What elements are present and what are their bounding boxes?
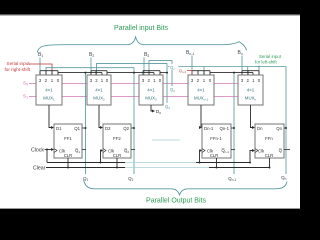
svg-text:Dn-1: Dn-1 xyxy=(204,126,214,131)
svg-text:Parallel input Bits: Parallel input Bits xyxy=(114,25,169,32)
svg-text:CLR: CLR xyxy=(210,153,219,158)
svg-text:Qn: Qn xyxy=(276,126,282,131)
svg-text:Parallel Output Bits: Parallel Output Bits xyxy=(146,198,206,205)
svg-text:4×1: 4×1 xyxy=(45,88,53,93)
svg-text:for right-shift: for right-shift xyxy=(5,67,31,72)
svg-text:for left-shift: for left-shift xyxy=(255,60,277,65)
svg-text:4×1: 4×1 xyxy=(95,88,103,93)
svg-text:FF2: FF2 xyxy=(113,136,121,141)
svg-text:CLR: CLR xyxy=(265,153,274,158)
svg-text:4×1: 4×1 xyxy=(147,88,155,93)
svg-text:D2: D2 xyxy=(105,126,111,131)
svg-text:Clear: Clear xyxy=(33,166,46,172)
svg-text:FFn-1: FFn-1 xyxy=(210,136,222,141)
svg-text:CLR: CLR xyxy=(113,153,122,158)
svg-text:CLR: CLR xyxy=(64,153,73,158)
svg-text:Dn: Dn xyxy=(257,126,263,131)
svg-text:Clock: Clock xyxy=(31,148,44,154)
svg-text:D1: D1 xyxy=(56,126,62,131)
svg-text:4×1: 4×1 xyxy=(197,88,205,93)
svg-text:Serial input: Serial input xyxy=(7,61,31,66)
svg-text:4×1: 4×1 xyxy=(247,88,255,93)
svg-text:Q1: Q1 xyxy=(74,126,80,131)
svg-text:Q2: Q2 xyxy=(123,126,129,131)
svg-text:Serial input: Serial input xyxy=(259,54,282,59)
svg-text:Qn-1: Qn-1 xyxy=(219,126,229,131)
svg-text:FFn: FFn xyxy=(265,136,273,141)
svg-text:FF1: FF1 xyxy=(64,136,72,141)
